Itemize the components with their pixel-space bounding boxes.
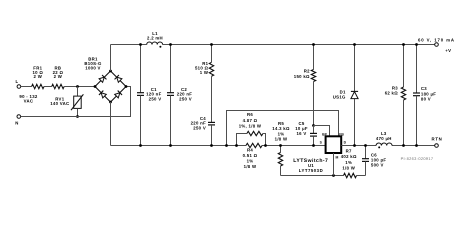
- wire RB to bridge left corner: [64, 86, 95, 88]
- node R6 left: [235, 144, 238, 147]
- capacitor C1: [137, 45, 162, 146]
- resistor FR1: [32, 66, 44, 89]
- svg-text:80 V: 80 V: [421, 96, 431, 101]
- svg-text:250 V: 250 V: [193, 126, 206, 131]
- IC U1 LYTSwitch-7: [293, 132, 346, 172]
- node R6 right: [264, 144, 267, 147]
- resistor R7: [341, 148, 366, 177]
- node C3 top: [415, 43, 418, 46]
- terminal +V: [418, 37, 455, 53]
- node bridge right: [125, 85, 128, 88]
- wire lower rail: [281, 175, 344, 177]
- capacitor C6: [362, 146, 386, 176]
- wire FB sense: [227, 111, 339, 146]
- node RV1 top: [76, 85, 79, 88]
- terminal L: [16, 79, 21, 88]
- node C2 top: [169, 43, 172, 46]
- svg-text:1%, 1/8 W: 1%, 1/8 W: [239, 124, 262, 129]
- node FB rail: [225, 144, 228, 147]
- resistor R5: [272, 121, 290, 176]
- svg-text:2 W: 2 W: [34, 74, 43, 79]
- svg-text:PI-8263-020917: PI-8263-020917: [401, 156, 434, 161]
- wire between FR1 and RB: [44, 86, 52, 88]
- svg-text:1 W: 1 W: [200, 70, 209, 75]
- resistor R3: [385, 45, 406, 146]
- svg-text:R7: R7: [346, 148, 352, 153]
- wire L line: [21, 86, 32, 88]
- node C3 bottom: [415, 144, 418, 147]
- wire N line: [21, 87, 131, 117]
- svg-text:R6: R6: [247, 112, 253, 117]
- wire M pin: [333, 153, 335, 176]
- node RV1 bottom: [76, 115, 79, 118]
- svg-text:60 V, 170 mA: 60 V, 170 mA: [418, 37, 455, 42]
- wire bridge bottom to rail: [110, 102, 112, 146]
- capacitor C4: [191, 116, 215, 146]
- node BP junction: [312, 124, 315, 127]
- resistor R2: [294, 45, 316, 126]
- resistor RB: [52, 66, 64, 89]
- svg-text:R3: R3: [392, 85, 398, 90]
- svg-text:500 V: 500 V: [371, 162, 384, 167]
- svg-text:250 V: 250 V: [179, 96, 192, 101]
- wire D rail: [341, 145, 376, 147]
- svg-text:402 kΩ: 402 kΩ: [341, 154, 357, 159]
- label 90-132 VAC: [19, 94, 37, 103]
- resistor R6 parallel loop: [237, 112, 266, 145]
- terminal RTN: [432, 137, 443, 148]
- svg-text:FB: FB: [339, 132, 344, 136]
- terminal N: [15, 115, 20, 126]
- svg-text:LYT7503D: LYT7503D: [299, 168, 323, 173]
- svg-text:250 V: 250 V: [149, 96, 162, 101]
- diode D1: [333, 45, 358, 146]
- svg-text:1%: 1%: [247, 158, 254, 163]
- resistor R1: [195, 45, 214, 123]
- svg-text:L: L: [16, 79, 19, 84]
- node C2 bottom: [169, 144, 172, 147]
- capacitor C3: [413, 45, 436, 146]
- svg-text:2 W: 2 W: [54, 74, 63, 79]
- node C6 top: [364, 144, 367, 147]
- node D1 top: [353, 43, 356, 46]
- svg-text:VAC: VAC: [24, 98, 34, 103]
- wire bridge top to rail: [110, 45, 112, 72]
- svg-text:1/8 W: 1/8 W: [244, 164, 257, 169]
- wire RTN stub: [418, 145, 435, 147]
- node R3 bottom: [402, 144, 405, 147]
- svg-text:US1G: US1G: [333, 94, 346, 99]
- wire top rail: [111, 44, 435, 46]
- wire BP: [314, 126, 330, 137]
- node C4 bottom: [210, 144, 213, 147]
- svg-text:470 µH: 470 µH: [376, 136, 392, 141]
- svg-text:R4: R4: [247, 148, 253, 153]
- node R1 top: [210, 43, 213, 46]
- svg-text:140 VAC: 140 VAC: [50, 101, 69, 106]
- node C1 bottom: [139, 144, 142, 147]
- node R3 top: [402, 43, 405, 46]
- svg-text:2.2 mH: 2.2 mH: [147, 35, 163, 40]
- varistor RV1: [50, 87, 83, 117]
- svg-text:16 V: 16 V: [296, 131, 306, 136]
- inductor L3: [376, 131, 392, 149]
- svg-text:M: M: [336, 156, 339, 160]
- capacitor C5: [295, 121, 317, 146]
- node C1 top: [139, 43, 142, 46]
- capacitor C2: [167, 45, 192, 146]
- node bridge bottom: [109, 101, 112, 104]
- node D1 bottom: [353, 144, 356, 147]
- svg-text:1/8 W: 1/8 W: [342, 165, 355, 170]
- bridge BR1: [84, 57, 126, 103]
- resistor R4 inline: [243, 143, 262, 169]
- svg-text:BP: BP: [322, 132, 327, 136]
- node C5 bottom: [312, 144, 315, 147]
- svg-text:RTN: RTN: [432, 137, 443, 142]
- svg-text:+V: +V: [445, 48, 451, 53]
- svg-text:1000 V: 1000 V: [85, 65, 100, 70]
- svg-text:150 kΩ: 150 kΩ: [294, 74, 310, 79]
- svg-text:1/8 W: 1/8 W: [275, 137, 288, 142]
- svg-text:62 kΩ: 62 kΩ: [385, 91, 399, 96]
- svg-text:0.51 Ω: 0.51 Ω: [243, 153, 258, 158]
- svg-text:4.87 Ω: 4.87 Ω: [243, 118, 258, 123]
- node R5 top: [279, 144, 282, 147]
- node M rail: [332, 174, 335, 177]
- svg-text:N: N: [15, 121, 18, 126]
- wire bottom rail: [111, 145, 247, 147]
- node R2 top: [312, 43, 315, 46]
- inductor L1: [147, 31, 163, 48]
- node bridge left: [94, 85, 97, 88]
- node bridge top: [109, 70, 112, 73]
